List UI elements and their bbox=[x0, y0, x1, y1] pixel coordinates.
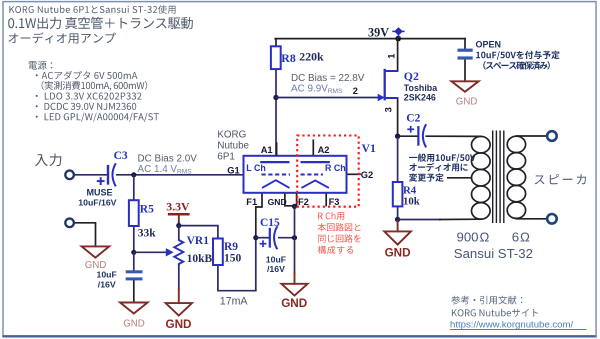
node J (R4/transformer/GND) bbox=[395, 217, 400, 222]
label title3 bbox=[9, 32, 116, 43]
tube A1 pin bbox=[276, 142, 278, 156]
plus mark C3 bbox=[97, 177, 105, 185]
svg-text:R9: R9 bbox=[224, 241, 238, 253]
wire 39V top rail bbox=[275, 38, 465, 40]
speaker terminal top bbox=[547, 131, 557, 141]
ground C15/F2 bbox=[281, 284, 307, 296]
svg-text:G1: G1 bbox=[227, 165, 239, 175]
tube filament L bbox=[262, 180, 290, 188]
resistor R4 bbox=[393, 182, 403, 206]
svg-text:KORG: KORG bbox=[217, 129, 246, 140]
wire gate of Q2 bbox=[276, 97, 378, 99]
svg-text:Toshiba: Toshiba bbox=[404, 83, 437, 93]
svg-text:MUSE: MUSE bbox=[87, 187, 113, 197]
transformer primary winding bbox=[472, 136, 491, 219]
speaker terminal bottom bbox=[547, 214, 557, 224]
svg-text:C2: C2 bbox=[406, 113, 420, 125]
Q2 gate arrowhead bbox=[378, 94, 385, 101]
node C (3.3V/VR1/R9) bbox=[176, 223, 181, 228]
svg-text:F3: F3 bbox=[329, 197, 340, 207]
transistor Q2 JFET channel bbox=[384, 69, 386, 101]
svg-text:17mA: 17mA bbox=[220, 295, 249, 307]
label gen2 bbox=[409, 163, 468, 171]
wire G2 stub bbox=[347, 173, 360, 175]
transformer secondary winding bbox=[507, 136, 525, 218]
label red4 bbox=[318, 246, 354, 254]
svg-text:10uF/16V: 10uF/16V bbox=[78, 197, 116, 207]
label pw3 bbox=[36, 93, 142, 100]
svg-text:/16V: /16V bbox=[267, 264, 285, 274]
tube filament R bbox=[301, 180, 329, 188]
ground R4 bbox=[384, 231, 411, 244]
svg-text:/16V: /16V bbox=[98, 279, 116, 289]
wire R5 bottom to node B bbox=[133, 226, 135, 252]
wire input R to GND bbox=[74, 223, 95, 247]
label open3 bbox=[483, 61, 550, 70]
node D (C15 left) bbox=[253, 235, 258, 240]
wire tube F2 pin stub bbox=[296, 193, 298, 207]
node B (R5/cap/VR1 wiper) bbox=[131, 250, 136, 255]
label red3 bbox=[318, 234, 361, 242]
svg-text:10kB: 10kB bbox=[187, 253, 213, 265]
wire C2 to transformer primary bbox=[426, 135, 481, 137]
svg-text:V1: V1 bbox=[362, 141, 377, 155]
wire tube F3 stub bbox=[325, 193, 327, 206]
svg-text:G2: G2 bbox=[361, 170, 373, 180]
wire C3 to tube G1 bbox=[117, 174, 244, 176]
label title2 bbox=[8, 17, 193, 29]
node F (GND/F2 junction) bbox=[292, 204, 297, 209]
svg-text:33k: 33k bbox=[138, 228, 157, 240]
svg-text:F2: F2 bbox=[298, 197, 309, 207]
svg-text:https://www.korgnutube.com/: https://www.korgnutube.com/ bbox=[450, 319, 574, 330]
wire R8 column / A1 feed bbox=[275, 40, 277, 47]
svg-text:A1: A1 bbox=[261, 145, 273, 155]
ground OPEN cap bbox=[451, 81, 478, 92]
wire node C down to VR1 bbox=[178, 226, 180, 240]
svg-text:Sansui ST-32: Sansui ST-32 bbox=[454, 246, 533, 261]
svg-text:GND: GND bbox=[166, 318, 192, 331]
svg-text:F1: F1 bbox=[246, 197, 257, 207]
wire input L to C3 bbox=[74, 174, 107, 176]
wire rail to OPEN cap bbox=[464, 39, 466, 49]
svg-text:R8: R8 bbox=[281, 51, 296, 65]
wire node C to R9 top bbox=[179, 226, 218, 239]
input terminal L bbox=[65, 171, 74, 180]
tube V1 body (KORG Nutube 6P1) bbox=[244, 156, 347, 193]
transformer primary center tap bbox=[447, 177, 472, 179]
svg-text:6P1: 6P1 bbox=[217, 151, 234, 162]
wire node B to VR1 wiper arrow bbox=[134, 251, 166, 253]
svg-text:39V: 39V bbox=[368, 25, 389, 39]
node I (source/C2/R4) bbox=[395, 134, 400, 139]
wire VR1 bottom to GND bbox=[178, 266, 180, 290]
tube grid L (dashed) bbox=[262, 174, 291, 176]
node G (R8/gate/A1) bbox=[273, 95, 278, 100]
wire tube GND pin jog bbox=[285, 193, 295, 206]
svg-text:R Ch: R Ch bbox=[325, 163, 346, 173]
wire C15 right lead bbox=[279, 237, 295, 239]
svg-text:3: 3 bbox=[383, 107, 393, 112]
node E (C15 right) bbox=[292, 235, 297, 240]
label red1 bbox=[318, 212, 344, 220]
red dotted box (R channel) bbox=[297, 136, 359, 207]
wire R9 bottom to C15/F1 riser (17mA path) bbox=[218, 238, 256, 291]
svg-text:VR1: VR1 bbox=[187, 235, 210, 247]
svg-text:DC Bias 2.0V: DC Bias 2.0V bbox=[138, 153, 198, 164]
svg-text:GND: GND bbox=[268, 197, 287, 207]
node A (C3/R5 junction) bbox=[131, 172, 136, 177]
wire transformer secondary to speaker terminals bbox=[516, 135, 547, 137]
label title1 bbox=[9, 5, 175, 14]
svg-text:GND: GND bbox=[281, 297, 307, 310]
3.3V rail bar bbox=[168, 213, 190, 216]
svg-text:3.3V: 3.3V bbox=[166, 199, 190, 213]
Q2 source lead bbox=[385, 97, 398, 99]
svg-text:GND: GND bbox=[123, 319, 145, 330]
label inp bbox=[35, 153, 61, 166]
wire node J to transformer primary bottom bbox=[398, 219, 440, 221]
wire 3.3V rail stem bbox=[178, 215, 180, 222]
svg-text:150: 150 bbox=[224, 253, 242, 265]
wire 10uF cap to GND bbox=[133, 280, 135, 303]
ground 10uF cap bbox=[120, 303, 148, 314]
Q2 drain lead bbox=[385, 70, 398, 72]
label gen1 bbox=[409, 153, 476, 162]
wire Q2 source down bbox=[397, 98, 399, 136]
svg-text:GND: GND bbox=[385, 247, 411, 260]
svg-text:Nutube: Nutube bbox=[217, 140, 249, 151]
resistor R5 bbox=[129, 200, 139, 226]
svg-text:1: 1 bbox=[386, 54, 396, 59]
svg-text:L Ch: L Ch bbox=[246, 163, 266, 173]
svg-text:10uF: 10uF bbox=[266, 255, 286, 265]
VR1 wiper arrowhead bbox=[166, 248, 174, 256]
wire node J to GND bbox=[397, 220, 399, 232]
label pw4 bbox=[36, 103, 137, 110]
wire node A down to R5 bbox=[133, 175, 135, 200]
svg-text:DC Bias = 22.8V: DC Bias = 22.8V bbox=[291, 73, 365, 84]
wire Q2 drain bbox=[397, 39, 399, 71]
svg-text:2SK246: 2SK246 bbox=[404, 93, 436, 103]
svg-text:C3: C3 bbox=[114, 150, 128, 162]
label ref2 bbox=[452, 309, 538, 317]
label pw5 bbox=[36, 113, 159, 122]
wire riser to F1 pin bbox=[256, 193, 262, 238]
svg-text:OPEN: OPEN bbox=[476, 40, 502, 50]
svg-text:10k: 10k bbox=[403, 196, 420, 208]
svg-text:GND: GND bbox=[456, 97, 478, 108]
39V power flag bbox=[392, 28, 404, 38]
tube anode plate L bbox=[260, 161, 289, 163]
svg-text:A2: A2 bbox=[318, 145, 330, 155]
tube grid R (dashed) bbox=[301, 174, 324, 176]
label pw2 bbox=[42, 81, 148, 91]
wire node B down to 10uF cap bbox=[133, 252, 135, 270]
wire A2 stub bbox=[312, 140, 314, 156]
label spk bbox=[535, 174, 586, 184]
wire node I to C2 bbox=[398, 135, 418, 137]
plus mark C2 bbox=[407, 126, 414, 133]
capacitor 10uF/16V bars bbox=[126, 270, 143, 273]
svg-text:6Ω: 6Ω bbox=[512, 229, 530, 244]
label pw1 bbox=[36, 71, 138, 80]
ground input bbox=[82, 81, 479, 315]
wire node F down through node E to GND bbox=[294, 206, 296, 273]
label pw0 bbox=[29, 61, 53, 70]
potentiometer VR1 zigzag bbox=[174, 240, 183, 266]
wire OPEN cap to GND bbox=[464, 60, 466, 81]
svg-text:220k: 220k bbox=[299, 50, 324, 64]
pin labels tube bbox=[227, 54, 396, 208]
label red2 bbox=[318, 223, 361, 231]
label open2 bbox=[476, 51, 559, 60]
capacitor C15 plates bbox=[269, 228, 271, 248]
input terminal R bbox=[65, 219, 74, 228]
wire C15 left lead bbox=[256, 237, 269, 239]
svg-text:GND: GND bbox=[85, 260, 107, 271]
capacitor OPEN bars bbox=[458, 49, 473, 52]
wire node I to R4 bbox=[397, 136, 399, 182]
svg-text:900Ω: 900Ω bbox=[457, 229, 490, 244]
capacitor C2 plates bbox=[417, 126, 419, 146]
transformer core bbox=[493, 131, 504, 224]
resistor R9 bbox=[213, 239, 223, 266]
tube anode plate R bbox=[301, 161, 330, 163]
ground VR1 bbox=[166, 303, 192, 316]
label ref1 bbox=[451, 296, 522, 305]
svg-text:R5: R5 bbox=[140, 203, 154, 215]
node H (rail/Q2 drain) bbox=[395, 36, 401, 42]
svg-text:C15: C15 bbox=[260, 217, 280, 229]
capacitor C3 plates bbox=[107, 165, 109, 185]
svg-text:2: 2 bbox=[353, 86, 358, 96]
resistor R8 bbox=[271, 46, 281, 69]
svg-text:Q2: Q2 bbox=[404, 69, 419, 83]
label gen3 bbox=[409, 173, 444, 181]
wire R4 bottom to node J bbox=[397, 206, 399, 219]
plus mark C15 bbox=[260, 240, 267, 247]
